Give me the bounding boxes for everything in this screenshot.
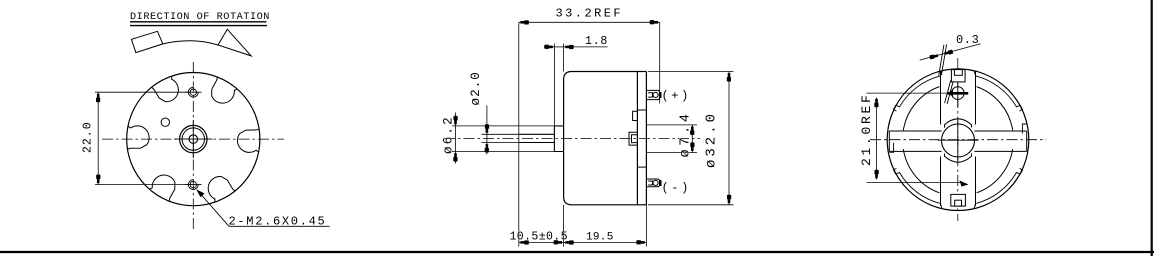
svg-text:33.2REF: 33.2REF xyxy=(556,7,624,21)
bottom mounting hole M2.6 xyxy=(190,181,196,187)
dim o32.0 xyxy=(648,71,734,73)
cap side tab xyxy=(633,111,638,120)
center bearing circle xyxy=(942,124,975,157)
top terminal tab xyxy=(951,70,965,82)
shaft xyxy=(519,133,555,135)
dim 21.0REF ext top xyxy=(867,92,948,94)
shaft hole xyxy=(189,135,198,144)
upper-left rim arc (mirror) xyxy=(894,71,943,111)
center hub inner ring xyxy=(182,128,204,150)
bottom cap arc xyxy=(945,154,972,163)
dim 22.0 extension line bottom xyxy=(95,184,188,186)
bottom terminal tab xyxy=(951,194,966,206)
svg-text:0.3: 0.3 xyxy=(956,33,979,47)
svg-text:ø32.0: ø32.0 xyxy=(704,111,720,168)
center hub outer circle xyxy=(180,125,207,152)
hub crosshair xyxy=(174,138,213,140)
terminal (+) xyxy=(646,90,659,99)
bottom dims 10.5±0.5 / 19.5 xyxy=(563,205,565,247)
svg-text:ø7.4: ø7.4 xyxy=(679,110,694,157)
svg-text:2-M2.6X0.45: 2-M2.6X0.45 xyxy=(229,215,327,229)
svg-text:ø2.0: ø2.0 xyxy=(469,71,483,105)
end cap right line xyxy=(645,72,647,205)
dim 1.8 xyxy=(553,44,555,126)
svg-text:10.5±0.5: 10.5±0.5 xyxy=(510,231,568,244)
dim o7.4 xyxy=(646,124,697,126)
bearing boss rear xyxy=(629,132,637,145)
svg-text:21.0REF: 21.0REF xyxy=(859,92,874,166)
svg-text:22.0: 22.0 xyxy=(82,121,95,153)
rim arcs with step notches xyxy=(889,71,1026,209)
right bar-end step xyxy=(1022,124,1026,134)
sheet right border xyxy=(1151,0,1153,256)
horizontal bar xyxy=(889,131,1026,151)
horizontal centerline xyxy=(444,138,700,140)
title underline 2 xyxy=(130,25,267,27)
small offset hole xyxy=(161,118,169,126)
inner circle arcs xyxy=(903,87,1012,193)
dim o6.2 xyxy=(452,125,554,127)
top cap arc xyxy=(945,119,972,128)
leader 2-M2.6X0.45 xyxy=(198,191,230,227)
dim 21.0REF ext bottom + arrow xyxy=(867,182,962,184)
left bar-end step xyxy=(889,143,893,153)
horizontal centerline xyxy=(870,139,1046,141)
dim 21.0REF line xyxy=(876,98,878,180)
lower-left rim arc (mirror both) xyxy=(894,168,943,208)
ext line 33.2REF right xyxy=(659,22,661,103)
horizontal centerline xyxy=(102,138,284,140)
dim o2.0 xyxy=(482,133,519,135)
vertical bar xyxy=(941,72,976,207)
dim 22.0 arrows xyxy=(96,94,100,103)
0.3 ext lines (terminal edge-on) xyxy=(939,45,944,76)
outer circle xyxy=(887,69,1029,211)
rotation arrowhead xyxy=(218,29,251,56)
lower-right rim arc xyxy=(974,168,1023,208)
svg-text:(+): (+) xyxy=(662,89,691,103)
dim 0.3 xyxy=(920,44,981,60)
dim 33.2REF xyxy=(519,21,660,23)
rotation arrow tail (rectangle) xyxy=(131,31,162,52)
svg-text:ø6.2: ø6.2 xyxy=(442,115,456,154)
motor face outer circle xyxy=(127,73,260,206)
dim 22.0 extension line top xyxy=(95,91,188,93)
terminal (-) xyxy=(646,179,659,187)
ext line 33.2REF left (also shaft tip, 10.5 dim) xyxy=(518,22,520,246)
title underline 1 xyxy=(130,21,267,23)
end cap bars xyxy=(637,109,646,111)
rotation arrow arc xyxy=(163,41,218,45)
vertical centerline xyxy=(957,58,959,221)
center crosshair xyxy=(938,139,979,141)
svg-text:1.8: 1.8 xyxy=(585,35,608,48)
sheet bottom border xyxy=(0,251,1154,253)
motor body xyxy=(564,72,638,205)
svg-text:19.5: 19.5 xyxy=(586,232,614,244)
top mounting hole M2.6 xyxy=(190,89,196,95)
top eyelet xyxy=(952,87,965,100)
upper-right rim arc ~80deg to 28deg xyxy=(974,71,1023,111)
svg-text:(-): (-) xyxy=(662,181,691,195)
bushing xyxy=(554,126,563,152)
vertical centerline xyxy=(192,62,194,229)
dim 22.0 dimension line xyxy=(97,92,99,184)
vent slots (6 comma-shaped slots) xyxy=(127,76,259,203)
